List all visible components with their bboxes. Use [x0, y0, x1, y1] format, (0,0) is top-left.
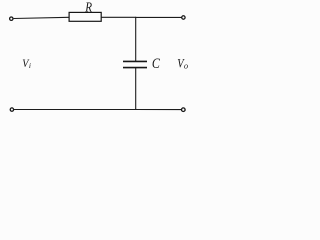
terminal T3 (input -, bottom-left) — [10, 108, 13, 111]
wire: node A down to capacitor C top plate — [135, 17, 137, 61]
wire: node A to output terminal — [136, 16, 182, 18]
svg-text:i: i — [29, 61, 31, 70]
capacitor C (bottom plate) — [123, 67, 147, 69]
wire: node B to bottom-right terminal — [136, 109, 182, 111]
svg-text:R: R — [84, 0, 92, 15]
terminal T4 (output -, bottom-right) — [182, 108, 186, 112]
resistor R (box symbol) — [69, 12, 101, 21]
wire: input terminal to resistor R left lead — [14, 17, 69, 18]
svg-text:C: C — [152, 56, 160, 72]
svg-text:o: o — [184, 60, 188, 70]
wire: bottom-left terminal to node B — [14, 109, 136, 111]
node A (junction of R, C and output wire) — [135, 17, 136, 18]
wire: capacitor C bottom plate down to node B — [135, 68, 137, 110]
node B (junction of C and bottom return wire) — [135, 109, 136, 110]
terminal T2 (output +, top-right) — [182, 16, 185, 19]
capacitor C (top plate) — [123, 60, 147, 62]
terminal T1 (input +, top-left) — [10, 17, 13, 20]
wire: resistor right lead to node A — [101, 16, 136, 18]
